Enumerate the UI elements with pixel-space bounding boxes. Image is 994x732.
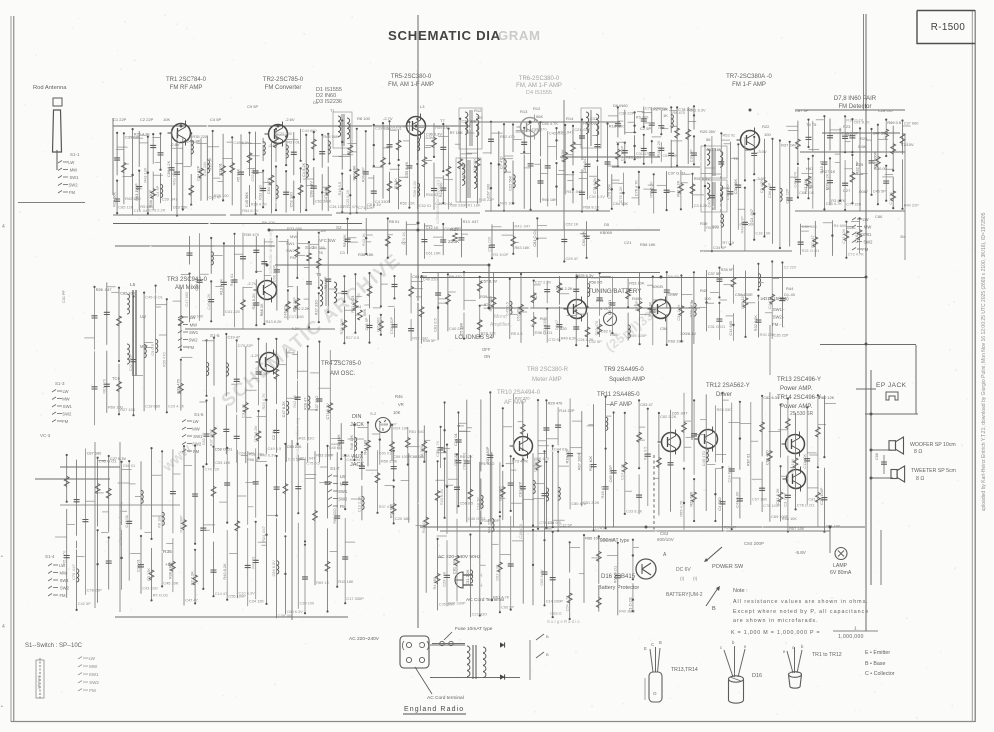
svg-text:R28 47: R28 47 — [302, 398, 307, 411]
svg-text:LW: LW — [63, 389, 69, 394]
svg-text:C81 22P: C81 22P — [517, 481, 522, 497]
transistor TR9 — [652, 300, 671, 319]
svg-text:C58 O.O1: C58 O.O1 — [215, 447, 233, 452]
component cluster T3 T4 IF transformers — [704, 146, 706, 232]
svg-text:TR8 2SC380-R: TR8 2SC380-R — [527, 367, 569, 373]
svg-text:TR7-2SC380A -0: TR7-2SC380A -0 — [726, 74, 772, 80]
component cluster mid sparse — [491, 224, 493, 258]
svg-text:R18 4.7K: R18 4.7K — [251, 201, 268, 206]
svg-text:R68 100: R68 100 — [534, 456, 550, 461]
svg-text:C11 100: C11 100 — [376, 317, 381, 332]
svg-text:schematic-archive.org: schematic-archive.org — [118, 501, 123, 546]
svg-text:R21 47: R21 47 — [810, 235, 815, 248]
svg-text:C65 680: C65 680 — [310, 245, 326, 250]
svg-text:C75 6.3V: C75 6.3V — [253, 425, 258, 442]
svg-text:C11 10K: C11 10K — [802, 453, 807, 468]
svg-text:C4 100P: C4 100P — [619, 146, 624, 162]
wire vertical x770 driver — [769, 325, 771, 375]
svg-text:C86 .047: C86 .047 — [582, 157, 587, 173]
svg-text:R43 1K: R43 1K — [361, 233, 366, 246]
svg-text:All resistance values are: All resistance values are shown in ohms. — [733, 599, 869, 605]
svg-text:R3 4.7K: R3 4.7K — [831, 198, 845, 203]
svg-text:TR12 2SA562-Y: TR12 2SA562-Y — [706, 383, 750, 389]
svg-text:C17 330P: C17 330P — [346, 596, 364, 601]
svg-text:C41 220: C41 220 — [225, 309, 241, 314]
svg-text:C35 22P: C35 22P — [773, 333, 789, 338]
svg-text:C • Collector: C • Collector — [865, 671, 895, 677]
svg-text:R55 470: R55 470 — [161, 352, 166, 368]
svg-text:R24 .047: R24 .047 — [261, 526, 266, 542]
svg-text:MW: MW — [290, 234, 297, 239]
svg-text:TWEETER SP 5cm: TWEETER SP 5cm — [911, 468, 956, 474]
svg-text:C75 0.5: C75 0.5 — [306, 461, 320, 466]
svg-text:C81 470: C81 470 — [532, 127, 548, 132]
svg-text:C54 4.7K: C54 4.7K — [564, 595, 569, 612]
junction dots — [180, 125, 183, 128]
svg-text:C24 2.2K: C24 2.2K — [619, 463, 624, 480]
svg-text:C75 8.2K: C75 8.2K — [618, 186, 623, 203]
svg-text:C56 330P: C56 330P — [841, 131, 859, 136]
svg-text:R65 680: R65 680 — [583, 121, 599, 126]
svg-text:R67 01: R67 01 — [745, 454, 750, 467]
svg-text:C30 22P: C30 22P — [619, 110, 635, 115]
svg-text:25.530 6R: 25.530 6R — [790, 411, 813, 417]
svg-text:C83: C83 — [660, 531, 669, 536]
svg-text:L3: L3 — [420, 104, 425, 109]
svg-text:-2.6V: -2.6V — [268, 143, 278, 148]
svg-text:R69 22P: R69 22P — [172, 170, 177, 186]
svg-text:R54 5P: R54 5P — [323, 276, 328, 289]
svg-text:C66 330P: C66 330P — [272, 264, 277, 282]
svg-text:10K: 10K — [393, 410, 401, 415]
svg-text:R23 10K: R23 10K — [790, 458, 795, 474]
svg-text:C8 O.O1: C8 O.O1 — [607, 300, 612, 315]
svg-text:FM: FM — [62, 419, 69, 424]
wire antenna base — [18, 202, 85, 204]
svg-text:Driver: Driver — [716, 392, 732, 398]
svg-text:R59 100P: R59 100P — [629, 333, 647, 338]
svg-text:C2 220: C2 220 — [784, 264, 797, 269]
wire detector bus 1 — [822, 132, 900, 134]
component cluster R46 zone — [407, 427, 409, 465]
wire vertical x292 — [291, 440, 293, 620]
IF transformer T2 — [456, 158, 481, 202]
svg-text:C24 12K: C24 12K — [249, 599, 265, 604]
svg-text:1,000,000: 1,000,000 — [838, 634, 864, 640]
svg-text:B: B — [659, 640, 662, 645]
svg-text:C14 1K: C14 1K — [888, 191, 893, 204]
package D16 — [724, 646, 745, 677]
svg-text:KB069: KB069 — [600, 230, 613, 235]
rod antenna symbol — [53, 98, 62, 106]
svg-text:FM Converter: FM Converter — [265, 85, 302, 91]
svg-text:DC 6V: DC 6V — [676, 567, 691, 573]
svg-text:B: B — [712, 606, 716, 612]
svg-text:LW: LW — [140, 314, 146, 319]
svg-text:C45 10K: C45 10K — [163, 580, 179, 585]
svg-text:C81 10K: C81 10K — [452, 559, 457, 575]
svg-text:R58 47: R58 47 — [426, 192, 439, 197]
svg-text:R48 2.2K: R48 2.2K — [656, 140, 661, 157]
svg-text:C33 5P: C33 5P — [689, 149, 694, 162]
svg-text:D1: D1 — [313, 100, 319, 105]
svg-text:C74 220: C74 220 — [205, 467, 221, 472]
S1 legend entries — [78, 657, 82, 660]
svg-text:R4 680: R4 680 — [432, 576, 437, 589]
svg-text:C81 6.3V: C81 6.3V — [689, 107, 706, 112]
svg-text:TR9 2SA495-0: TR9 2SA495-0 — [604, 367, 644, 373]
svg-text:R32 8.2K: R32 8.2K — [753, 315, 758, 332]
svg-text:C13 10K: C13 10K — [841, 228, 846, 244]
svg-text:R1 33O: R1 33O — [481, 461, 494, 466]
power switch S5 — [707, 547, 722, 560]
rectifier diodes — [500, 642, 505, 647]
transistor TR1 — [172, 124, 191, 143]
svg-text:R43 .047: R43 .047 — [515, 224, 531, 229]
fuse — [440, 641, 444, 645]
svg-text:R35: R35 — [163, 549, 172, 555]
svg-text:C1 22P: C1 22P — [113, 117, 127, 122]
svg-text:R23 10K: R23 10K — [588, 455, 593, 471]
svg-text:SW1: SW1 — [338, 489, 348, 494]
svg-text:SCHEMATIC DIA: SCHEMATIC DIA — [388, 28, 501, 43]
wire woofer feed — [871, 449, 891, 451]
svg-text:+50: +50 — [165, 562, 173, 568]
svg-text:R5 470: R5 470 — [706, 225, 719, 230]
svg-text:R13: R13 — [520, 109, 528, 114]
svg-text:C2 5P: C2 5P — [640, 126, 651, 131]
svg-text:R65 O.O1: R65 O.O1 — [612, 566, 617, 584]
component cluster R37 zone — [347, 219, 349, 254]
svg-text:R42 01: R42 01 — [250, 556, 255, 569]
svg-text:C86: C86 — [875, 214, 883, 219]
svg-text:-4.2V: -4.2V — [290, 326, 300, 331]
svg-text:C29 18K: C29 18K — [472, 158, 477, 174]
svg-text:C14 47: C14 47 — [215, 591, 228, 596]
svg-text:C4 8.2K: C4 8.2K — [301, 162, 306, 176]
svg-text:R40 22P: R40 22P — [904, 202, 920, 207]
svg-text:TR4 2SC785-0: TR4 2SC785-0 — [321, 361, 362, 367]
svg-text:C78 22P: C78 22P — [87, 588, 103, 593]
svg-text:R35 220: R35 220 — [192, 134, 208, 139]
svg-text:R18 0.5: R18 0.5 — [337, 182, 342, 196]
svg-text:C42 5P: C42 5P — [78, 601, 91, 606]
svg-text:are shown in microfarads.: are shown in microfarads. — [733, 618, 819, 624]
svg-text:Except where noted by P,: Except where noted by P, all capacitance — [733, 609, 869, 615]
svg-text:FM, AM 1-F AMP: FM, AM 1-F AMP — [388, 82, 434, 88]
svg-text:56K: 56K — [536, 114, 543, 119]
svg-text:MW: MW — [60, 571, 67, 576]
svg-text:R54 6.3V: R54 6.3V — [242, 208, 259, 213]
wire vertical x120 left — [119, 442, 121, 612]
svg-text:C56 220: C56 220 — [487, 236, 492, 252]
svg-text:R65 33O: R65 33O — [332, 508, 337, 524]
svg-text:50K/B: 50K/B — [652, 284, 663, 289]
transistor TR12 — [699, 430, 718, 449]
svg-text:C25 8.2K: C25 8.2K — [345, 189, 350, 206]
svg-text:100: 100 — [764, 132, 771, 137]
svg-text:-2.7V: -2.7V — [383, 116, 393, 121]
svg-text:S2: S2 — [336, 225, 342, 230]
svg-text:R27 33O: R27 33O — [313, 300, 318, 316]
svg-text:C21: C21 — [624, 240, 632, 245]
svg-text:4: 4 — [2, 224, 5, 230]
svg-text:Rod Antenna: Rod Antenna — [33, 85, 67, 91]
component cluster bottom left — [66, 455, 68, 502]
svg-text:C48 0.5: C48 0.5 — [329, 445, 343, 450]
svg-text:R26 18K: R26 18K — [647, 301, 652, 317]
svg-text:R29 470: R29 470 — [548, 401, 564, 406]
svg-text:C70 1K: C70 1K — [401, 232, 406, 245]
svg-text:C87 3P: C87 3P — [795, 108, 809, 113]
svg-text:C26 22P: C26 22P — [461, 118, 477, 123]
svg-text:C29 47: C29 47 — [566, 256, 579, 261]
svg-text:C88-0: C88-0 — [550, 611, 562, 616]
svg-text:10K: 10K — [163, 117, 170, 122]
svg-text:TR11 2SA485-0: TR11 2SA485-0 — [597, 392, 640, 398]
svg-text:C34 5P: C34 5P — [713, 245, 726, 250]
svg-text:C68 O.O1: C68 O.O1 — [461, 452, 466, 470]
wire long vertical x863 — [863, 14, 865, 110]
svg-text:C29 12K: C29 12K — [442, 571, 447, 587]
component cluster FM converter — [231, 137, 233, 205]
svg-text:C47 47: C47 47 — [185, 598, 198, 603]
svg-text:R53 10K: R53 10K — [629, 280, 645, 285]
svg-text:R67 100P: R67 100P — [576, 453, 581, 471]
svg-text:SW1: SW1 — [862, 232, 872, 237]
svg-text:C43 01: C43 01 — [124, 515, 129, 528]
arrow B — [706, 588, 718, 606]
svg-text:TR14 2SC496-Y: TR14 2SC496-Y — [777, 395, 821, 401]
svg-text:R1 1K: R1 1K — [393, 178, 398, 189]
svg-text:R25 4.7K: R25 4.7K — [261, 393, 266, 410]
svg-text:C6 47: C6 47 — [554, 320, 559, 330]
svg-text:C85 12K: C85 12K — [118, 205, 134, 210]
svg-text:C31 O.O1: C31 O.O1 — [708, 324, 726, 329]
svg-text:C13 2.2K: C13 2.2K — [357, 496, 362, 513]
svg-text:C27: C27 — [843, 188, 851, 193]
svg-text:R29 2.2K: R29 2.2K — [339, 318, 344, 335]
component cluster aux-vc4 zone — [361, 452, 363, 480]
IF transformer T7 — [459, 108, 482, 149]
svg-text:C89 12K: C89 12K — [740, 293, 745, 309]
component cluster D5 zone — [611, 174, 613, 209]
svg-text:C77 220: C77 220 — [846, 202, 862, 207]
svg-text:AFC SW: AFC SW — [318, 238, 336, 243]
svg-text:C87 680: C87 680 — [87, 451, 103, 456]
label R38 — [307, 253, 312, 261]
svg-text:VR: VR — [398, 402, 404, 407]
svg-text:S1--Switch : SP--10C: S1--Switch : SP--10C — [25, 643, 83, 649]
svg-text:TR2-2SC785-0: TR2-2SC785-0 — [263, 77, 304, 83]
svg-text:C12 5P: C12 5P — [559, 522, 572, 527]
component cluster AF amplifier — [444, 403, 446, 452]
IF transformer T4 — [581, 108, 601, 148]
svg-text:C48 100: C48 100 — [202, 161, 207, 177]
svg-text:FM RF AMP: FM RF AMP — [170, 85, 203, 91]
svg-text:R20 28V: R20 28V — [700, 129, 716, 134]
svg-text:C76 O.O1: C76 O.O1 — [797, 502, 815, 507]
svg-text:R63 330P: R63 330P — [316, 452, 334, 457]
svg-text:C4 .047: C4 .047 — [749, 209, 754, 223]
svg-text:C37 680: C37 680 — [904, 120, 920, 125]
svg-text:R37 330P: R37 330P — [209, 429, 214, 447]
svg-text:R46 220: R46 220 — [486, 518, 491, 534]
wire bottom power bus — [420, 526, 865, 528]
svg-text:R42 1K: R42 1K — [292, 394, 297, 407]
svg-text:R45A: R45A — [632, 296, 642, 301]
svg-text:R43 01: R43 01 — [421, 520, 426, 533]
right frame border — [971, 10, 973, 722]
svg-text:SW2: SW2 — [60, 586, 70, 591]
svg-text:C20 18K: C20 18K — [395, 516, 411, 521]
svg-text:S1-1: S1-1 — [70, 152, 80, 157]
svg-text:R23 1K: R23 1K — [807, 176, 812, 189]
svg-text:FM: FM — [69, 190, 76, 195]
svg-text:R21 O.O1: R21 O.O1 — [350, 295, 355, 313]
svg-text:C72 4.7K: C72 4.7K — [848, 252, 865, 257]
svg-text:C89 6.3V: C89 6.3V — [308, 181, 313, 198]
svg-text:R25 6.3V: R25 6.3V — [577, 273, 594, 278]
svg-text:R50 2.2K: R50 2.2K — [381, 459, 398, 464]
svg-text:C31 PF: C31 PF — [62, 289, 66, 303]
svg-text:1: 1 — [854, 626, 857, 631]
svg-text:C88 330P: C88 330P — [450, 202, 468, 207]
svg-text:R15 18K: R15 18K — [338, 579, 354, 584]
svg-text:8 Ω: 8 Ω — [914, 449, 922, 455]
svg-text:c: c — [792, 645, 794, 650]
svg-text:D5: D5 — [604, 222, 610, 227]
svg-text:uploaded by Karl-Heinz Entrich: uploaded by Karl-Heinz Entrich Y.T.21; d… — [981, 212, 987, 511]
svg-text:C81 O.O1: C81 O.O1 — [532, 229, 537, 247]
svg-text:TR5-2SC380-0: TR5-2SC380-0 — [391, 74, 432, 80]
svg-text:R3 100P: R3 100P — [493, 252, 509, 257]
svg-text:C40 2.2K: C40 2.2K — [206, 293, 211, 310]
svg-text:C18 .047: C18 .047 — [134, 208, 150, 213]
left frame border — [10, 16, 12, 722]
svg-text:C2 2.2K: C2 2.2K — [190, 571, 195, 585]
svg-text:R57 18K: R57 18K — [789, 526, 805, 531]
wire bus y277 long — [420, 277, 866, 279]
svg-text:C59 220: C59 220 — [287, 444, 303, 449]
svg-text:R36 22P: R36 22P — [360, 167, 365, 183]
svg-text:C86 6.3V: C86 6.3V — [271, 560, 276, 577]
svg-text:C27 220: C27 220 — [277, 131, 293, 136]
svg-text:C19 470: C19 470 — [518, 523, 523, 539]
svg-text:C59 100P: C59 100P — [393, 454, 411, 459]
svg-text:C49 4.7K: C49 4.7K — [793, 171, 798, 188]
svg-text:C3 12K: C3 12K — [146, 568, 151, 581]
svg-text:C18 01: C18 01 — [136, 559, 141, 572]
svg-text:R13 .047: R13 .047 — [463, 219, 479, 224]
svg-text:R37 220: R37 220 — [515, 395, 531, 400]
svg-text:-2.7V: -2.7V — [247, 281, 257, 286]
svg-text:C64 4.7K: C64 4.7K — [266, 177, 271, 194]
component cluster power supply — [425, 452, 427, 593]
wire detector bus 2 — [800, 151, 905, 153]
svg-text:AC 220~240V: AC 220~240V — [349, 636, 380, 642]
svg-text:D3 IS2236: D3 IS2236 — [316, 99, 342, 105]
package TR1-TR12 — [787, 647, 802, 673]
component cluster FM detector — [797, 121, 799, 164]
svg-text:R51 4.7K: R51 4.7K — [493, 594, 510, 599]
svg-text:C10 6.3V: C10 6.3V — [239, 591, 256, 596]
component cluster switch bank — [183, 446, 185, 605]
svg-text:C24 6.3V: C24 6.3V — [726, 466, 731, 483]
S1 switch symbol — [39, 658, 41, 700]
svg-text:R4 680: R4 680 — [834, 223, 847, 228]
transistor TR4 — [260, 353, 279, 372]
svg-text:FM: FM — [60, 593, 67, 598]
wire corner x489 — [488, 265, 490, 308]
svg-text:C4 47: C4 47 — [767, 299, 772, 309]
svg-text:MW: MW — [864, 225, 871, 230]
wire bus y265 — [275, 264, 490, 266]
svg-text:R69 0.5: R69 0.5 — [887, 120, 901, 125]
svg-text:SW2: SW2 — [863, 240, 873, 245]
svg-text:C51 2.2K: C51 2.2K — [583, 500, 600, 505]
svg-text:C2 1K: C2 1K — [271, 429, 276, 440]
svg-text:R32 5P: R32 5P — [855, 161, 860, 174]
transistor TR10 — [514, 437, 533, 456]
svg-text:FM 1-F AMP: FM 1-F AMP — [732, 82, 766, 88]
svg-text:R39 5P: R39 5P — [423, 338, 436, 343]
svg-text:D7,8 IN60 PAIR: D7,8 IN60 PAIR — [834, 96, 877, 102]
svg-text:O: O — [653, 691, 657, 696]
svg-text:C3 8.2K: C3 8.2K — [240, 403, 245, 417]
svg-text:TR13 2SC496-Y: TR13 2SC496-Y — [777, 377, 821, 383]
svg-text:R6 100: R6 100 — [262, 220, 276, 225]
svg-text:C44 680: C44 680 — [302, 128, 318, 133]
svg-text:•: • — [1, 704, 3, 710]
svg-text:C5 18K: C5 18K — [459, 322, 464, 335]
svg-text:C81 8.2K: C81 8.2K — [775, 488, 780, 505]
component cluster battery zone — [569, 542, 571, 572]
component cluster power amplifier — [705, 394, 707, 511]
svg-text:R37 33O: R37 33O — [314, 396, 319, 412]
svg-text:R23 680: R23 680 — [689, 491, 694, 507]
svg-text:C52 01: C52 01 — [250, 169, 255, 182]
svg-text:SW2 -: SW2 - — [773, 315, 785, 320]
svg-text:C88 0.5: C88 0.5 — [410, 454, 424, 459]
svg-text:MW: MW — [70, 168, 77, 173]
svg-text:B • Base: B • Base — [865, 661, 885, 667]
svg-text:R7 0.5: R7 0.5 — [723, 240, 734, 245]
svg-text:R10 330P: R10 330P — [179, 515, 184, 533]
svg-text:MW: MW — [62, 397, 69, 402]
wire vertical lamp branch — [829, 527, 831, 553]
svg-text:C4 5P: C4 5P — [210, 117, 221, 122]
svg-text:R20 100: R20 100 — [214, 193, 230, 198]
dashed tuning gang link — [720, 176, 722, 226]
svg-text:C31 2.2K: C31 2.2K — [465, 569, 470, 586]
wire vertical x881 battery — [880, 530, 882, 585]
svg-text:C47 6.3V: C47 6.3V — [735, 491, 740, 508]
svg-text:C27 6.3V: C27 6.3V — [110, 456, 127, 461]
svg-text:Amplifier: Amplifier — [490, 322, 510, 328]
svg-text:C76 4.7K: C76 4.7K — [634, 180, 639, 197]
wire EP jack h1 — [856, 388, 876, 390]
svg-text:-5.8V: -5.8V — [795, 550, 806, 555]
power transformer — [467, 646, 470, 652]
svg-text:SW1: SW1 — [189, 330, 199, 335]
svg-text:-2.6V: -2.6V — [285, 117, 295, 122]
svg-text:R22: R22 — [762, 124, 770, 129]
wire AGC bus — [113, 223, 362, 225]
wire vertical x692 — [691, 300, 693, 440]
svg-text:6V 80mA: 6V 80mA — [830, 570, 852, 576]
svg-text:C14 680: C14 680 — [728, 320, 733, 336]
